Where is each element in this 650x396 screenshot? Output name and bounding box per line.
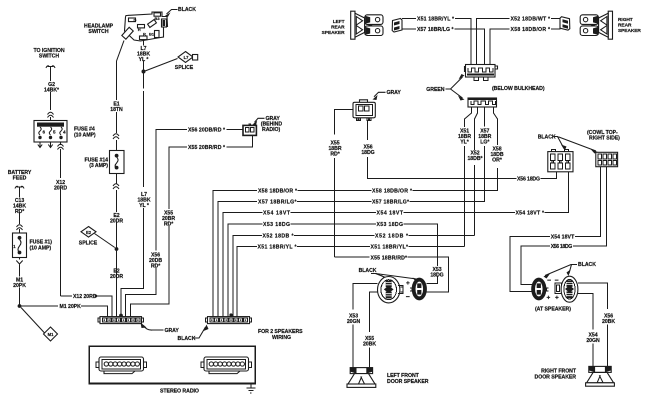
wire G2 14BK (50, 67, 52, 121)
svg-text:18DG: 18DG (430, 273, 443, 279)
left rear speaker icon (351, 11, 383, 39)
connector black 8-pin (speaker harness) (205, 317, 251, 324)
wire L7 18BK/YL from headlamp (121, 40, 144, 317)
connector left door white oval (378, 277, 404, 303)
svg-text:X57 18BR/LG*: X57 18BR/LG* (258, 200, 298, 206)
junction at black connector (229, 313, 232, 316)
svg-text:(AT SPEAKER): (AT SPEAKER) (535, 307, 571, 313)
svg-text:X53 18DG: X53 18DG (377, 222, 404, 228)
svg-text:M1: M1 (48, 332, 54, 337)
svg-text:DOOR SPEAKER: DOOR SPEAKER (535, 375, 577, 381)
svg-text:BLACK: BLACK (178, 336, 196, 342)
svg-text:(10 AMP): (10 AMP) (30, 246, 52, 252)
junction M1 (18, 304, 22, 308)
wire X56 18DG right (521, 167, 606, 285)
wire X51 18BR/YL bus (237, 247, 464, 317)
wire M1 20PK vertical (19, 265, 21, 306)
wire X58 18DB/OR top (490, 29, 560, 65)
wire X56 18DG vertical (367, 121, 556, 179)
svg-text:X12 20RD: X12 20RD (73, 294, 97, 300)
connector left door black oval (410, 278, 427, 301)
connector radio left (96, 357, 147, 374)
wire X55 18BR/RD bus (334, 257, 448, 292)
svg-text:RIGHT: RIGHT (618, 17, 633, 23)
right rear speaker icon (580, 11, 612, 39)
wire X55 20BK (370, 292, 378, 368)
connector gray 8-pin (radio harness) (98, 317, 144, 324)
svg-text:WIRING: WIRING (272, 335, 291, 341)
svg-text:20GN: 20GN (347, 319, 361, 325)
fuse block FUSE #4 (10 AMP) (34, 121, 67, 143)
connector left rear speaker (392, 19, 402, 33)
wire X58 18DB/OR bus (213, 191, 497, 317)
ground (246, 384, 255, 393)
connector right door white oval (561, 276, 578, 302)
wire X56 20BK (578, 283, 608, 367)
svg-text:+: + (555, 295, 559, 302)
svg-text:GRAY: GRAY (387, 90, 402, 96)
svg-text:X58 18DB/OR *: X58 18DB/OR * (372, 189, 413, 195)
svg-text:X52 18DB/WT *: X52 18DB/WT * (511, 16, 552, 22)
connector bulkhead upper (465, 65, 498, 81)
svg-text:(3 AMP): (3 AMP) (89, 163, 108, 169)
wire M1 20PK horizontal (20, 306, 108, 317)
junction E2 (115, 247, 119, 251)
wire X53 20GN (353, 284, 378, 369)
connector headlamp switch body (122, 12, 168, 41)
splice E2 (81, 227, 96, 238)
svg-text:SWITCH: SWITCH (88, 29, 108, 35)
wire stubs under fuse 4 (38, 142, 53, 148)
wire X12 20RD horizontal (61, 296, 112, 317)
wire X52 18DB/WT top (477, 18, 561, 64)
connector cowl top 8-pin (596, 152, 618, 166)
svg-text:REAR: REAR (618, 23, 632, 29)
wire X51 below bulkhead (465, 107, 472, 247)
svg-text:RD*: RD* (15, 209, 25, 215)
svg-text:B3: B3 (155, 16, 161, 21)
svg-text:R: R (143, 32, 146, 37)
svg-text:14BK*: 14BK* (44, 88, 60, 94)
wire E1 (116, 112, 118, 151)
svg-text:X56 20DB/RD *: X56 20DB/RD * (188, 128, 226, 134)
wire X55 18BR/RD left (334, 110, 353, 258)
svg-text:X57 18BR/LG *: X57 18BR/LG * (417, 27, 455, 33)
svg-text:RADIO): RADIO) (262, 127, 280, 133)
wire X57 18BR/LG bus (218, 202, 484, 317)
svg-text:X58 18DB/OR *: X58 18DB/OR * (511, 27, 552, 33)
svg-text:−: − (555, 278, 559, 285)
svg-text:E2: E2 (86, 230, 92, 235)
svg-text:D: D (134, 18, 137, 23)
connector C-gray behind radio (243, 124, 256, 136)
svg-text:X56 18DG: X56 18DG (551, 244, 573, 250)
svg-text:X51 18BR/YL *: X51 18BR/YL * (417, 16, 455, 22)
splice M1 (21, 308, 46, 335)
splice L7 (145, 59, 178, 72)
wire X54 18VT bus (223, 172, 569, 317)
svg-text:X54 18VT *: X54 18VT * (516, 211, 546, 217)
wire E2 20DR (116, 174, 118, 318)
break symbol M1 (16, 258, 22, 265)
svg-text:−: − (406, 294, 410, 301)
svg-text:SWITCH: SWITCH (39, 54, 59, 60)
svg-text:GRAY: GRAY (165, 328, 180, 334)
svg-text:SPLICE: SPLICE (79, 241, 98, 247)
svg-text:20DR: 20DR (110, 274, 123, 280)
svg-text:X51 18BR/YL*: X51 18BR/YL* (371, 245, 410, 251)
clip right pair (555, 283, 562, 294)
svg-text:H: H (138, 27, 141, 32)
svg-text:REAR: REAR (331, 25, 345, 31)
svg-text:+: + (547, 295, 551, 302)
break symbol E1 (113, 134, 119, 139)
wire X56 20DB/RD (125, 130, 243, 317)
connector radio right (201, 357, 252, 374)
svg-text:YL *: YL * (139, 57, 150, 63)
svg-text:OR*: OR* (492, 158, 503, 164)
svg-text:X51 18BR/YL *: X51 18BR/YL * (258, 245, 298, 251)
left door speaker icon (347, 368, 376, 388)
svg-text:20RD: 20RD (54, 186, 67, 192)
svg-text:X54 18VT: X54 18VT (377, 211, 404, 217)
wire X58 below bulkhead (494, 107, 498, 191)
wire X57 below bulkhead (484, 107, 486, 202)
connector gray 2-pin (amp) (353, 100, 375, 121)
svg-text:BLACK: BLACK (178, 7, 196, 13)
svg-text:20BK: 20BK (602, 319, 615, 325)
svg-text:(10 AMP): (10 AMP) (74, 133, 96, 139)
svg-text:X52 18DB *: X52 18DB * (375, 233, 409, 239)
svg-text:SPEAKER: SPEAKER (618, 28, 641, 34)
svg-text:X54 18VT: X54 18VT (551, 235, 575, 241)
wire X12 20RD vertical (60, 149, 62, 296)
svg-text:STEREO RADIO: STEREO RADIO (160, 389, 199, 395)
right door speaker icon (586, 366, 615, 386)
svg-text:RD*: RD* (330, 152, 340, 158)
break symbol C13 (17, 225, 23, 230)
wire E1 diagonal from headlamp (117, 41, 125, 62)
svg-text:18DB*: 18DB* (467, 156, 483, 162)
wire X52 below bulkhead (475, 107, 478, 236)
wire X53 18DG bus (228, 224, 437, 317)
junction L7 at connector (119, 314, 123, 318)
junction L7 (142, 70, 146, 74)
svg-text:RD*: RD* (151, 264, 161, 270)
svg-text:18DG: 18DG (361, 150, 374, 156)
wire X52 18DB bus (233, 235, 475, 316)
svg-text:LEFT: LEFT (333, 19, 345, 25)
svg-text:X53 18DG: X53 18DG (263, 222, 290, 228)
wire X51 18BR/YL top (402, 18, 471, 64)
svg-text:X52 18DB *: X52 18DB * (263, 233, 295, 239)
svg-text:X56 18DG: X56 18DG (517, 177, 540, 183)
svg-text:(BELOW BULKHEAD): (BELOW BULKHEAD) (492, 86, 545, 92)
wire C13 14BK/RD (19, 188, 21, 234)
connector stub ignition (46, 66, 55, 68)
svg-text:20BK: 20BK (363, 342, 376, 348)
svg-text:20DR: 20DR (110, 219, 123, 225)
wire X54 20GN (578, 294, 593, 367)
fuse F14 FUSE #14 (3 AMP) (110, 151, 125, 174)
svg-text:RIGHT SIDE): RIGHT SIDE) (589, 136, 620, 142)
svg-text:RD*: RD* (164, 222, 174, 228)
svg-text:X57 18BR/LG*: X57 18BR/LG* (372, 200, 410, 206)
stereo radio box (89, 346, 255, 383)
svg-text:SPEAKER: SPEAKER (322, 30, 345, 36)
svg-text:20PK: 20PK (13, 283, 26, 289)
wire X57 18BR/LG top (402, 29, 484, 65)
fuse F1 FUSE #1 (10 AMP) (13, 233, 27, 258)
svg-text:X55 18BR/RD*: X55 18BR/RD* (371, 255, 409, 261)
svg-text:YL *: YL * (139, 203, 150, 209)
svg-text:X54 18VT: X54 18VT (263, 211, 291, 217)
connector black 6-pin cowl (548, 150, 573, 172)
svg-text:BLACK: BLACK (578, 262, 596, 268)
svg-text:FEED: FEED (13, 176, 27, 182)
connector bulkhead lower (468, 98, 497, 107)
svg-text:GREEN: GREEN (426, 87, 445, 93)
svg-text:B1: B1 (149, 32, 155, 37)
svg-text:YL*: YL* (460, 140, 470, 146)
break symbol E2 (113, 184, 119, 189)
junction X12 (95, 295, 98, 298)
svg-text:20GN: 20GN (586, 338, 600, 344)
svg-text:LG*: LG* (480, 140, 490, 146)
svg-text:L7: L7 (184, 55, 190, 60)
svg-text:X58 18DB/OR *: X58 18DB/OR * (258, 189, 298, 195)
svg-text:BLACK: BLACK (538, 135, 556, 141)
svg-text:−: − (547, 278, 551, 285)
wire X54 18VT right (510, 167, 600, 292)
connector stub battery (15, 186, 24, 188)
connector right door black oval (531, 278, 548, 301)
wire X55 20BR/RD (130, 135, 252, 317)
svg-text:+: + (406, 280, 410, 287)
svg-text:SPLICE: SPLICE (175, 65, 194, 71)
connector right rear speaker (560, 17, 570, 31)
break symbol G2 (48, 112, 54, 117)
svg-text:M1 20PK: M1 20PK (60, 304, 82, 310)
svg-text:DOOR SPEAKER: DOOR SPEAKER (387, 379, 429, 385)
svg-text:X55 20BR/RD *: X55 20BR/RD * (188, 145, 226, 151)
break symbol X12 (58, 142, 64, 150)
